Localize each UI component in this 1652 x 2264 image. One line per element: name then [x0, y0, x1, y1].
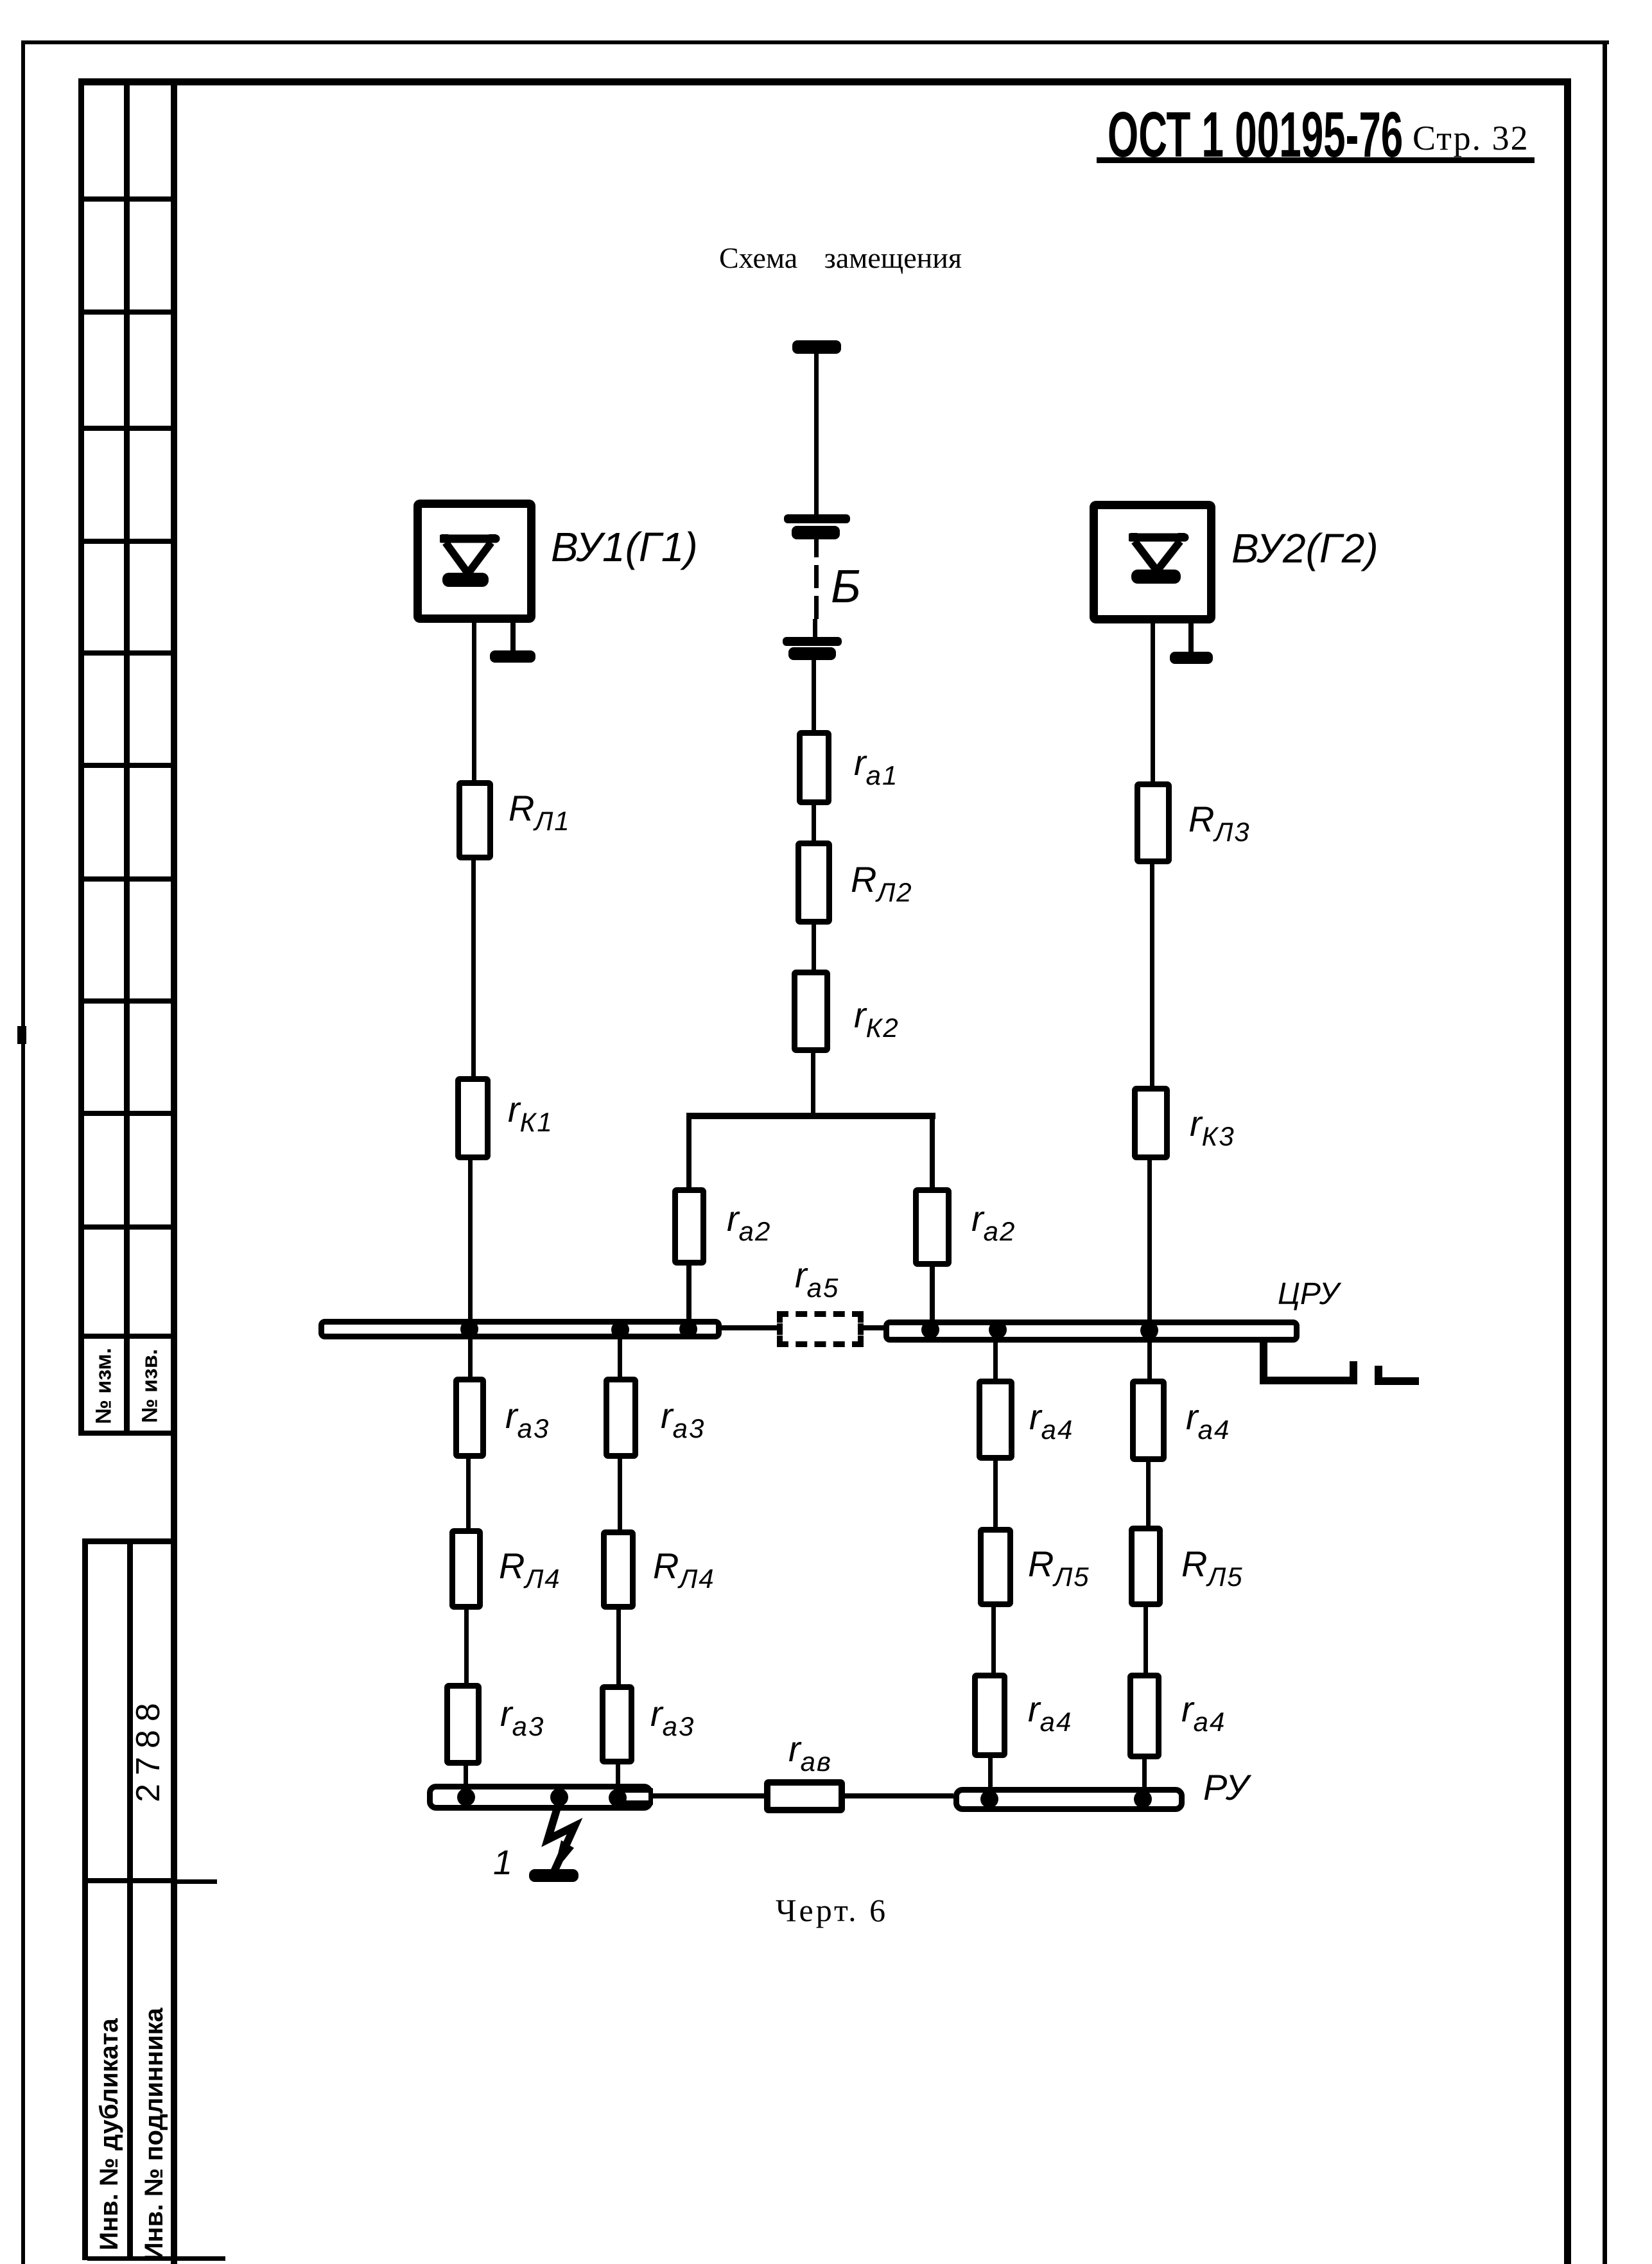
lightning arrow [520, 1803, 591, 1886]
label RЛ5 [1181, 1546, 1244, 1590]
resistor rК3 [1132, 1086, 1170, 1160]
diode symbol VU2 [1129, 529, 1190, 590]
label ra1 [854, 745, 898, 789]
junction on bus CRU left (ra3 branch 2) [611, 1321, 629, 1339]
label RЛ1 [509, 790, 571, 835]
battery top terminal bar [792, 340, 841, 354]
label ra3 [650, 1696, 695, 1740]
wire down [930, 1117, 935, 1189]
branch 3 wire from bus [993, 1342, 998, 1379]
ground stub VU2 [1188, 623, 1194, 654]
resistor ra5 (dashed) [777, 1311, 864, 1347]
label ra2 left [727, 1201, 771, 1245]
label rК1 [508, 1092, 553, 1136]
step line from right bus end [1260, 1342, 1267, 1384]
resistor ra4 upper b4 [1130, 1379, 1167, 1462]
wire to bus [930, 1266, 935, 1324]
junction on bus CRU left (ra2 left branch) [679, 1320, 697, 1338]
frame thick right [1564, 78, 1571, 2264]
junction on bus CRU right (ra2 right branch) [921, 1321, 939, 1339]
resistor ra3 lower b1 [444, 1683, 482, 1766]
label RЛ5 [1028, 1546, 1090, 1590]
wire [812, 805, 816, 841]
wire bus to ra5 [722, 1325, 777, 1330]
junction on bus RU right (branch 4) [1134, 1790, 1152, 1808]
label ra2 right [971, 1201, 1016, 1245]
wire [1143, 1607, 1148, 1673]
wire [814, 354, 819, 514]
wire [991, 1607, 996, 1673]
tick right of frame left border [177, 1879, 217, 1884]
title Схема замещения [719, 243, 962, 273]
label ra5 [795, 1257, 839, 1302]
wire [811, 1053, 815, 1117]
label ra4 [1029, 1399, 1074, 1443]
label rК2 [854, 997, 900, 1041]
label "2788" rotated [132, 1684, 165, 1813]
label "No изв." rotated [138, 1335, 163, 1438]
label VU1(G1) [551, 527, 698, 568]
outer thin border top [21, 40, 1609, 44]
junction on bus CRU right (ra4 branch 3) [989, 1321, 1007, 1339]
T connector horizontal [686, 1113, 935, 1119]
wire ra5 to right bus [864, 1325, 884, 1330]
wire [471, 860, 476, 1079]
resistor ra4 upper b3 [977, 1379, 1014, 1461]
resistor RЛ4 b1 [449, 1528, 483, 1610]
wire to RU bus [464, 1766, 468, 1788]
label TsRU [1278, 1279, 1339, 1310]
resistor rК1 [455, 1076, 491, 1160]
outer thin border right [1603, 40, 1607, 2264]
lower table left vertical [82, 1538, 88, 2260]
wire [618, 1459, 622, 1529]
table left vertical [78, 78, 84, 1436]
junction on bus CRU left (rК1 branch) [460, 1320, 478, 1338]
wire stub [814, 539, 819, 557]
wire [813, 619, 817, 638]
wire to bus [686, 1265, 691, 1323]
lower table row line [82, 1878, 177, 1883]
label RЛ4 [653, 1548, 715, 1592]
caption Черт. 6 [776, 1894, 888, 1926]
frame thick left [171, 78, 177, 2264]
label ra4 [1181, 1691, 1226, 1736]
wire [993, 1461, 998, 1527]
wire [1150, 864, 1154, 1088]
branch 1 wire [466, 1459, 471, 1531]
label "Инв. No дубликата" rotated [94, 1974, 125, 2264]
frame thick top [78, 78, 1571, 85]
resistor ra4 lower b4 [1127, 1673, 1161, 1759]
ground bar VU1 [490, 650, 535, 663]
wire down [686, 1117, 691, 1189]
battery long plate 2 [783, 637, 842, 646]
label 1 [493, 1845, 512, 1880]
resistor RЛ5 b3 [978, 1527, 1013, 1607]
junction on bus RU left (branch 2) [609, 1789, 627, 1807]
label "No изм." rotated [92, 1335, 117, 1438]
label ra3 [500, 1696, 544, 1740]
label RU [1203, 1770, 1249, 1806]
lower table middle vertical [127, 1538, 133, 2260]
resistor RЛ5 b4 [1129, 1526, 1163, 1607]
lower table top [82, 1538, 177, 1544]
wire rав to RU right [845, 1793, 953, 1798]
label RЛ3 [1188, 801, 1251, 846]
battery short plate 2 [788, 647, 836, 660]
branch 2 wire from bus [618, 1339, 622, 1377]
label ra4 [1028, 1691, 1072, 1736]
label RЛ4 [499, 1548, 561, 1592]
label ra3 [505, 1398, 550, 1442]
wire [464, 1610, 469, 1683]
resistor ra2 left [672, 1187, 706, 1266]
dashed wire [814, 565, 819, 588]
bus RU right [953, 1787, 1185, 1812]
wire through bus [1147, 1160, 1152, 1379]
table row lines [78, 196, 177, 202]
wire RU-left to rав [653, 1793, 764, 1798]
junction on bus RU left (fault node 1) [550, 1788, 568, 1806]
wire [812, 925, 816, 971]
mark on outer left border [17, 1026, 26, 1044]
ground stub VU1 [510, 622, 516, 652]
L mark [1375, 1366, 1382, 1385]
label rав [788, 1731, 832, 1775]
junction on bus RU left (branch 1) [457, 1788, 475, 1806]
wire to RU bus [616, 1764, 620, 1788]
diode symbol VU1 [440, 530, 501, 591]
resistor RЛ3 [1135, 781, 1172, 864]
label RЛ2 [851, 862, 913, 906]
wire to ra1 [812, 660, 816, 731]
label ra4 [1186, 1399, 1230, 1443]
unit box VU1 [413, 500, 535, 623]
label ra3 [661, 1398, 705, 1442]
resistor rав [764, 1779, 845, 1813]
resistor RЛ2 [796, 840, 832, 925]
resistor rК2 [792, 970, 830, 1053]
resistor ra3 upper b2 [604, 1377, 638, 1459]
label VU2(G2) [1231, 528, 1378, 569]
doc number OCT 1 00195-76 [1108, 103, 1403, 167]
resistor RЛ1 [456, 780, 493, 860]
ground bar VU2 [1170, 652, 1213, 664]
table middle vertical [124, 78, 130, 1436]
wire [616, 1610, 621, 1684]
page number Стр. 32 [1413, 121, 1529, 155]
wire from VU1 [472, 622, 476, 782]
unit box VU2 [1090, 501, 1215, 623]
resistor ra3 lower b2 [600, 1684, 634, 1764]
header underline [1097, 157, 1535, 163]
resistor RЛ4 b2 [601, 1529, 636, 1610]
wire through bus [468, 1160, 473, 1379]
resistor ra1 [797, 730, 831, 805]
bus RU left [427, 1784, 653, 1811]
wire from VU2 [1151, 623, 1155, 782]
bus TsRU right [883, 1319, 1300, 1343]
resistor ra2 right [913, 1187, 952, 1267]
node Б label [831, 564, 861, 610]
battery short plate [792, 526, 840, 539]
bus RU left inner end rect [614, 1788, 653, 1805]
wire to RU bus [988, 1758, 993, 1790]
label rК3 [1190, 1106, 1235, 1150]
junction on bus RU right (branch 3) [980, 1790, 998, 1808]
junction on bus CRU right (rК3 branch) [1140, 1321, 1158, 1339]
outer thin border left [21, 40, 25, 2264]
label "Инв. No подлинника" rotated [139, 1974, 170, 2264]
wire to RU bus [1142, 1759, 1147, 1790]
resistor ra3 upper b1 [453, 1377, 486, 1459]
branch 4 wire [1146, 1462, 1151, 1526]
bus TsRU left [318, 1319, 722, 1339]
battery long plate [784, 514, 850, 523]
outer border bottom segment [87, 2256, 225, 2261]
ground bar of arrow [529, 1869, 578, 1882]
resistor ra4 lower b3 [972, 1673, 1007, 1758]
